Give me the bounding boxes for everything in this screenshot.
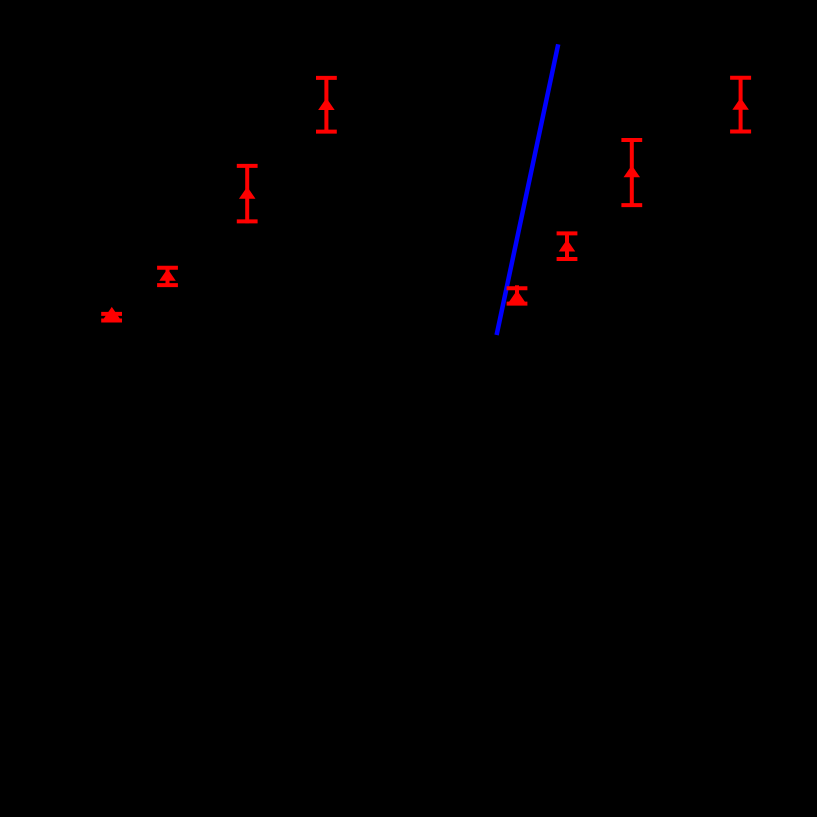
- data point 2 error bar stem: [166, 266, 170, 287]
- data point 7 top cap: [621, 138, 642, 142]
- data point 5 bottom cap: [507, 302, 528, 306]
- data point 5 error bar stem: [515, 285, 519, 305]
- data point 8 bottom cap: [730, 130, 751, 134]
- theory line (blue): [497, 44, 559, 335]
- data point 8 error bar stem: [739, 76, 743, 133]
- data point 2 triangle marker: [159, 269, 176, 281]
- data point 1 bottom cap: [101, 319, 122, 323]
- data point 7 triangle marker: [624, 165, 641, 177]
- data point 4 bottom cap: [316, 130, 337, 134]
- data point 8 top cap: [730, 76, 751, 80]
- data point 1 top cap: [101, 312, 122, 316]
- data point 4 triangle marker: [318, 98, 335, 110]
- data point 3 triangle marker: [239, 187, 256, 199]
- data point 1 triangle marker: [104, 307, 121, 319]
- data point 3 top cap: [237, 164, 258, 168]
- data point 3 error bar stem: [245, 164, 249, 223]
- data point 1 error bar stem: [110, 312, 114, 322]
- data point 6 top cap: [557, 231, 578, 235]
- data point 5 triangle marker: [509, 290, 526, 302]
- data point 4 top cap: [316, 76, 337, 80]
- data point 6 bottom cap: [557, 257, 578, 261]
- data point 5 top cap: [507, 286, 528, 290]
- data point 2 bottom cap: [157, 283, 178, 287]
- data point 6 triangle marker: [559, 240, 576, 252]
- data point 3 bottom cap: [237, 219, 258, 223]
- data point 2 top cap: [157, 266, 178, 270]
- data point 8 triangle marker: [732, 98, 749, 110]
- data point 4 error bar stem: [324, 76, 328, 134]
- data point 7 error bar stem: [630, 138, 634, 207]
- data point 7 bottom cap: [621, 203, 642, 207]
- data point 6 error bar stem: [565, 232, 569, 262]
